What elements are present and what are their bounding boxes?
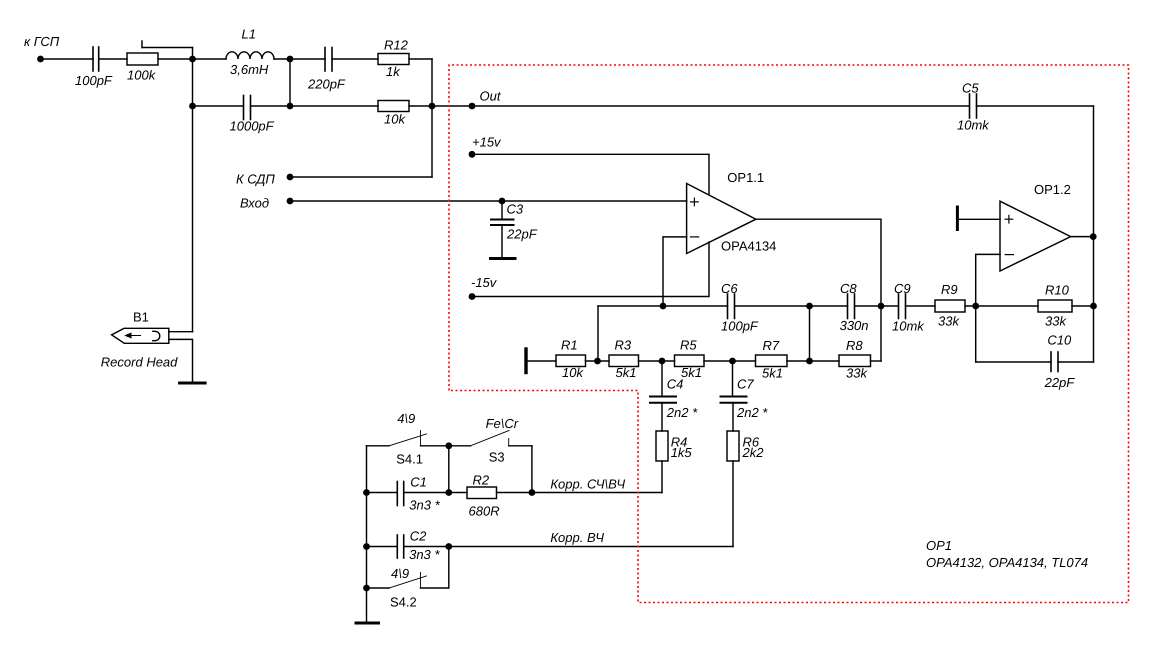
label Корр. СЧ\ВЧ (550, 477, 625, 492)
node Out (469, 103, 476, 110)
wire R12 down to К СДП (431, 59, 433, 177)
svg-text:OP1.1: OP1.1 (727, 170, 764, 185)
svg-text:Корр. СЧ\ВЧ: Корр. СЧ\ВЧ (550, 477, 625, 492)
wire OP1.1 output (756, 219, 881, 361)
wire (735, 305, 848, 307)
svg-text:S3: S3 (489, 449, 505, 464)
svg-text:C2: C2 (410, 529, 427, 544)
wire (531, 446, 533, 493)
svg-text:5k1: 5k1 (681, 365, 702, 380)
label Вход (240, 196, 269, 211)
capacitor 220pF (307, 48, 346, 92)
wire left switch bus (366, 446, 368, 623)
node B (287, 56, 294, 63)
svg-text:680R: 680R (469, 504, 500, 519)
svg-text:OP1.2: OP1.2 (1034, 182, 1071, 197)
svg-text:R5: R5 (680, 338, 697, 353)
resistor R6 2k2 (727, 431, 764, 461)
resistor 10k (378, 101, 409, 127)
svg-text:S4.1: S4.1 (396, 451, 423, 466)
svg-text:C4: C4 (667, 377, 684, 392)
wire inverting input (663, 237, 687, 306)
capacitor C8 330n (840, 281, 869, 333)
resistor R1 10k (556, 338, 586, 381)
wire (193, 58, 227, 60)
switch S4.1 (367, 411, 449, 466)
capacitor C6 100pF (721, 281, 759, 334)
wire (332, 58, 378, 60)
node (363, 489, 370, 496)
node (445, 489, 452, 496)
svg-text:100pF: 100pF (75, 73, 113, 88)
wire (367, 492, 398, 494)
wire Out row (472, 105, 970, 107)
svg-text:C5: C5 (962, 81, 979, 96)
wire (409, 105, 472, 107)
label OPA4132, OPA4134, TL074 (926, 555, 1088, 570)
node (363, 543, 370, 550)
wire right bus down (1093, 106, 1095, 362)
wire (99, 58, 127, 60)
label Record Head (101, 355, 178, 370)
svg-text:1k: 1k (386, 64, 401, 79)
node (287, 103, 294, 110)
node C3 tap (499, 198, 506, 205)
node (445, 543, 452, 550)
ground tap OP1.2 non-inverting input (956, 207, 959, 230)
svg-text:3n3 *: 3n3 * (409, 498, 440, 513)
svg-text:3n3 *: 3n3 * (409, 547, 440, 562)
label B1 (133, 310, 149, 325)
node (1090, 233, 1097, 240)
switch S3 (449, 416, 532, 464)
wire (448, 446, 450, 493)
svg-text:S4.2: S4.2 (390, 594, 417, 609)
wire (959, 218, 1000, 220)
label Корр. ВЧ (550, 530, 604, 545)
svg-text:C10: C10 (1047, 333, 1072, 348)
resistor R9 33k (935, 282, 965, 329)
wire (274, 58, 290, 60)
wire (290, 105, 378, 107)
svg-text:R8: R8 (846, 338, 863, 353)
svg-text:10mk: 10mk (892, 319, 925, 334)
svg-text:4\9: 4\9 (397, 411, 415, 426)
svg-text:Out: Out (480, 89, 502, 104)
wire +15v (472, 154, 709, 194)
svg-text:22pF: 22pF (506, 227, 538, 242)
node (806, 358, 813, 365)
label +15v (472, 135, 502, 150)
wire head top terminal (169, 331, 193, 333)
label Out (480, 89, 502, 104)
resistor R7 5k1 (756, 338, 788, 381)
svg-text:10k: 10k (384, 112, 406, 127)
capacitor C1 3n3 (397, 475, 440, 513)
node (660, 303, 667, 310)
svg-text:+15v: +15v (472, 135, 502, 150)
svg-text:C9: C9 (894, 281, 911, 296)
svg-text:к ГСП: к ГСП (24, 34, 60, 49)
svg-text:R3: R3 (615, 338, 632, 353)
svg-text:Вход: Вход (240, 196, 269, 211)
wire feedback row (598, 305, 728, 307)
op-amp OP1.1 (687, 184, 756, 254)
resistor R5 5k1 (675, 338, 705, 381)
wire (251, 105, 291, 107)
node (1090, 303, 1097, 310)
wire (704, 360, 756, 362)
node (445, 442, 452, 449)
resistor R8 33k (839, 338, 871, 381)
op-amp OP1.2 (1000, 201, 1071, 271)
svg-text:C6: C6 (721, 281, 738, 296)
wire (41, 58, 94, 60)
svg-text:33k: 33k (846, 366, 868, 381)
wire OP1.2 output (1071, 236, 1094, 238)
svg-text:К СДП: К СДП (236, 172, 275, 187)
svg-text:R10: R10 (1045, 283, 1070, 298)
ground (180, 382, 206, 385)
svg-text:10mk: 10mk (957, 118, 990, 133)
node (972, 303, 979, 310)
wire head bottom terminal (169, 339, 193, 383)
label OP1 (926, 538, 952, 553)
svg-text:OPA4134: OPA4134 (721, 239, 776, 254)
wire (193, 105, 244, 107)
record head B1 (112, 328, 169, 343)
ground (491, 257, 516, 260)
svg-text:B1: B1 (133, 310, 149, 325)
svg-text:5k1: 5k1 (762, 366, 783, 381)
wire (965, 305, 1038, 307)
resistor R3 5k1 (609, 338, 639, 381)
wire Корр СЧ\ВЧ row (497, 492, 663, 494)
wire (977, 105, 1094, 107)
capacitor C5 10mk (957, 81, 990, 133)
node (363, 585, 370, 592)
wire R6 to Корр ВЧ (732, 461, 734, 547)
node К СДП terminal (287, 174, 294, 181)
svg-text:5k1: 5k1 (616, 365, 637, 380)
label К СДП (236, 172, 275, 187)
wire (289, 59, 291, 106)
node A (189, 56, 196, 63)
svg-text:10k: 10k (562, 365, 584, 380)
wire (290, 176, 432, 178)
svg-text:OP1: OP1 (926, 538, 952, 553)
resistor R2 680R (467, 473, 500, 519)
wire (1058, 361, 1094, 363)
svg-text:C1: C1 (410, 475, 427, 490)
wire (158, 58, 193, 60)
node (429, 103, 436, 110)
wire (528, 360, 557, 362)
svg-text:Record Head: Record Head (101, 355, 178, 370)
svg-text:100pF: 100pF (721, 319, 759, 334)
node +15v terminal (469, 151, 476, 158)
label OP1.2 (1034, 182, 1071, 197)
svg-text:R7: R7 (763, 338, 780, 353)
svg-text:Fe\Cr: Fe\Cr (486, 416, 519, 431)
wire Корр ВЧ row (404, 546, 733, 548)
resistor R10 33k (1038, 283, 1072, 329)
node -15v terminal (469, 293, 476, 300)
svg-text:100k: 100k (127, 68, 157, 83)
node (659, 358, 666, 365)
resistor 100k trimmer (127, 41, 193, 83)
capacitor 100pF (75, 47, 113, 88)
wire (871, 360, 882, 362)
svg-text:C3: C3 (507, 202, 524, 217)
node (529, 489, 536, 496)
capacitor C10 22pF (1044, 333, 1076, 391)
svg-text:C8: C8 (840, 281, 857, 296)
svg-text:R2: R2 (473, 473, 490, 488)
svg-text:22pF: 22pF (1044, 375, 1076, 390)
wire (639, 360, 675, 362)
svg-text:R9: R9 (941, 282, 958, 297)
wire (855, 305, 899, 307)
dashed boundary OP1 block (449, 65, 1129, 603)
resistor R4 1k5 (656, 431, 692, 461)
capacitor C7 2n2 (721, 361, 769, 431)
wire (404, 492, 467, 494)
wire R4 to Корр СЧ\ВЧ (661, 461, 663, 493)
wire (409, 58, 432, 60)
node (594, 358, 601, 365)
capacitor 1000pF (230, 96, 275, 134)
svg-text:R1: R1 (561, 338, 578, 353)
node (878, 303, 885, 310)
node (806, 303, 813, 310)
svg-text:2n2 *: 2n2 * (736, 405, 768, 420)
wire left bus down (192, 59, 194, 332)
ground (356, 622, 379, 625)
node к ГСП input terminal (37, 56, 44, 63)
label OPA4134 (721, 239, 776, 254)
wire (787, 360, 839, 362)
wire (367, 546, 398, 548)
label -15v (471, 275, 498, 290)
svg-text:Корр. ВЧ: Корр. ВЧ (550, 530, 604, 545)
svg-text:2k2: 2k2 (742, 445, 765, 460)
label OP1.1 (727, 170, 764, 185)
svg-text:R12: R12 (384, 38, 409, 53)
ground tap R1 (524, 349, 527, 373)
svg-text:33k: 33k (938, 314, 960, 329)
node (729, 358, 736, 365)
svg-text:220pF: 220pF (307, 77, 346, 92)
wire (448, 547, 450, 589)
wire OP1.2 inverting input (976, 254, 1000, 362)
svg-text:33k: 33k (1045, 314, 1067, 329)
svg-text:C7: C7 (737, 377, 754, 392)
svg-text:-15v: -15v (471, 275, 498, 290)
svg-text:3,6mH: 3,6mH (230, 62, 269, 77)
svg-text:330n: 330n (840, 318, 869, 333)
svg-text:2n2 *: 2n2 * (666, 405, 698, 420)
svg-text:4\9: 4\9 (391, 566, 409, 581)
label к ГСП (24, 34, 60, 49)
wire (1072, 305, 1094, 307)
wire Вход to op-amp (290, 200, 687, 202)
wire (586, 360, 610, 362)
wire C10 row (976, 361, 1051, 363)
capacitor C9 10mk (892, 281, 925, 334)
svg-text:1000pF: 1000pF (230, 119, 275, 134)
switch S4.2 (367, 566, 449, 609)
inductor L1 3,6mH (226, 27, 274, 78)
node (189, 103, 196, 110)
svg-text:L1: L1 (242, 27, 256, 42)
wire (290, 58, 325, 60)
capacitor C3 22pF (491, 201, 538, 257)
svg-text:1k5: 1k5 (671, 445, 693, 460)
wire down to R1/R3 node (597, 306, 599, 361)
wire -15v (472, 242, 709, 297)
capacitor C4 2n2 (650, 361, 698, 431)
svg-text:OPA4132, OPA4134, TL074: OPA4132, OPA4134, TL074 (926, 555, 1088, 570)
wire between rows (809, 306, 811, 361)
capacitor C2 3n3 (397, 529, 440, 563)
resistor R12 1k (378, 38, 409, 80)
node Вход terminal (287, 198, 294, 205)
wire (906, 305, 936, 307)
